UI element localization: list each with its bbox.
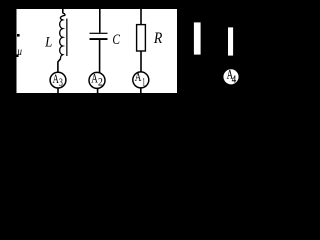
inductor L coil bbox=[60, 13, 65, 58]
svg-text:u: u bbox=[17, 44, 22, 58]
wire A3 to bottom rail bbox=[57, 88, 59, 94]
wire top feed of capacitor branch bbox=[99, 9, 101, 33]
capacitor C top plate bbox=[90, 33, 108, 34]
ammeter A2 bbox=[89, 71, 105, 88]
svg-text:C: C bbox=[112, 32, 120, 48]
wire A1 to bottom rail bbox=[140, 88, 142, 94]
node lower source terminal bbox=[16, 54, 19, 57]
wire A2 to bottom rail bbox=[97, 88, 99, 93]
node upper source terminal bbox=[17, 34, 20, 37]
wire top feed of resistor branch bbox=[140, 9, 142, 25]
wire top feed of inductor branch bbox=[62, 9, 64, 13]
svg-text:L: L bbox=[44, 35, 52, 51]
svg-text:2: 2 bbox=[98, 77, 103, 89]
bar 2 (inverted wire segment) bbox=[228, 27, 233, 55]
figure white canvas bbox=[17, 9, 178, 93]
svg-text:A: A bbox=[53, 72, 59, 86]
ammeter A1 bbox=[133, 70, 149, 88]
bar 1 (inverted wire segment) bbox=[194, 22, 201, 54]
svg-text:1: 1 bbox=[142, 76, 145, 88]
wire capacitor to A2 bbox=[99, 40, 101, 73]
inductor core line bbox=[66, 19, 68, 56]
wire resistor to A1 bbox=[140, 51, 142, 72]
svg-text:4: 4 bbox=[232, 74, 237, 86]
wire coil bottom to A3 bbox=[58, 59, 61, 73]
resistor R box bbox=[137, 25, 146, 51]
ammeter A3 bbox=[50, 72, 66, 89]
capacitor C bottom plate bbox=[90, 38, 108, 40]
ammeter A4 (inverted white disc) bbox=[223, 68, 238, 86]
svg-text:A: A bbox=[135, 70, 142, 84]
svg-text:R: R bbox=[153, 30, 163, 47]
svg-text:3: 3 bbox=[59, 77, 63, 89]
svg-text:A: A bbox=[91, 71, 98, 85]
